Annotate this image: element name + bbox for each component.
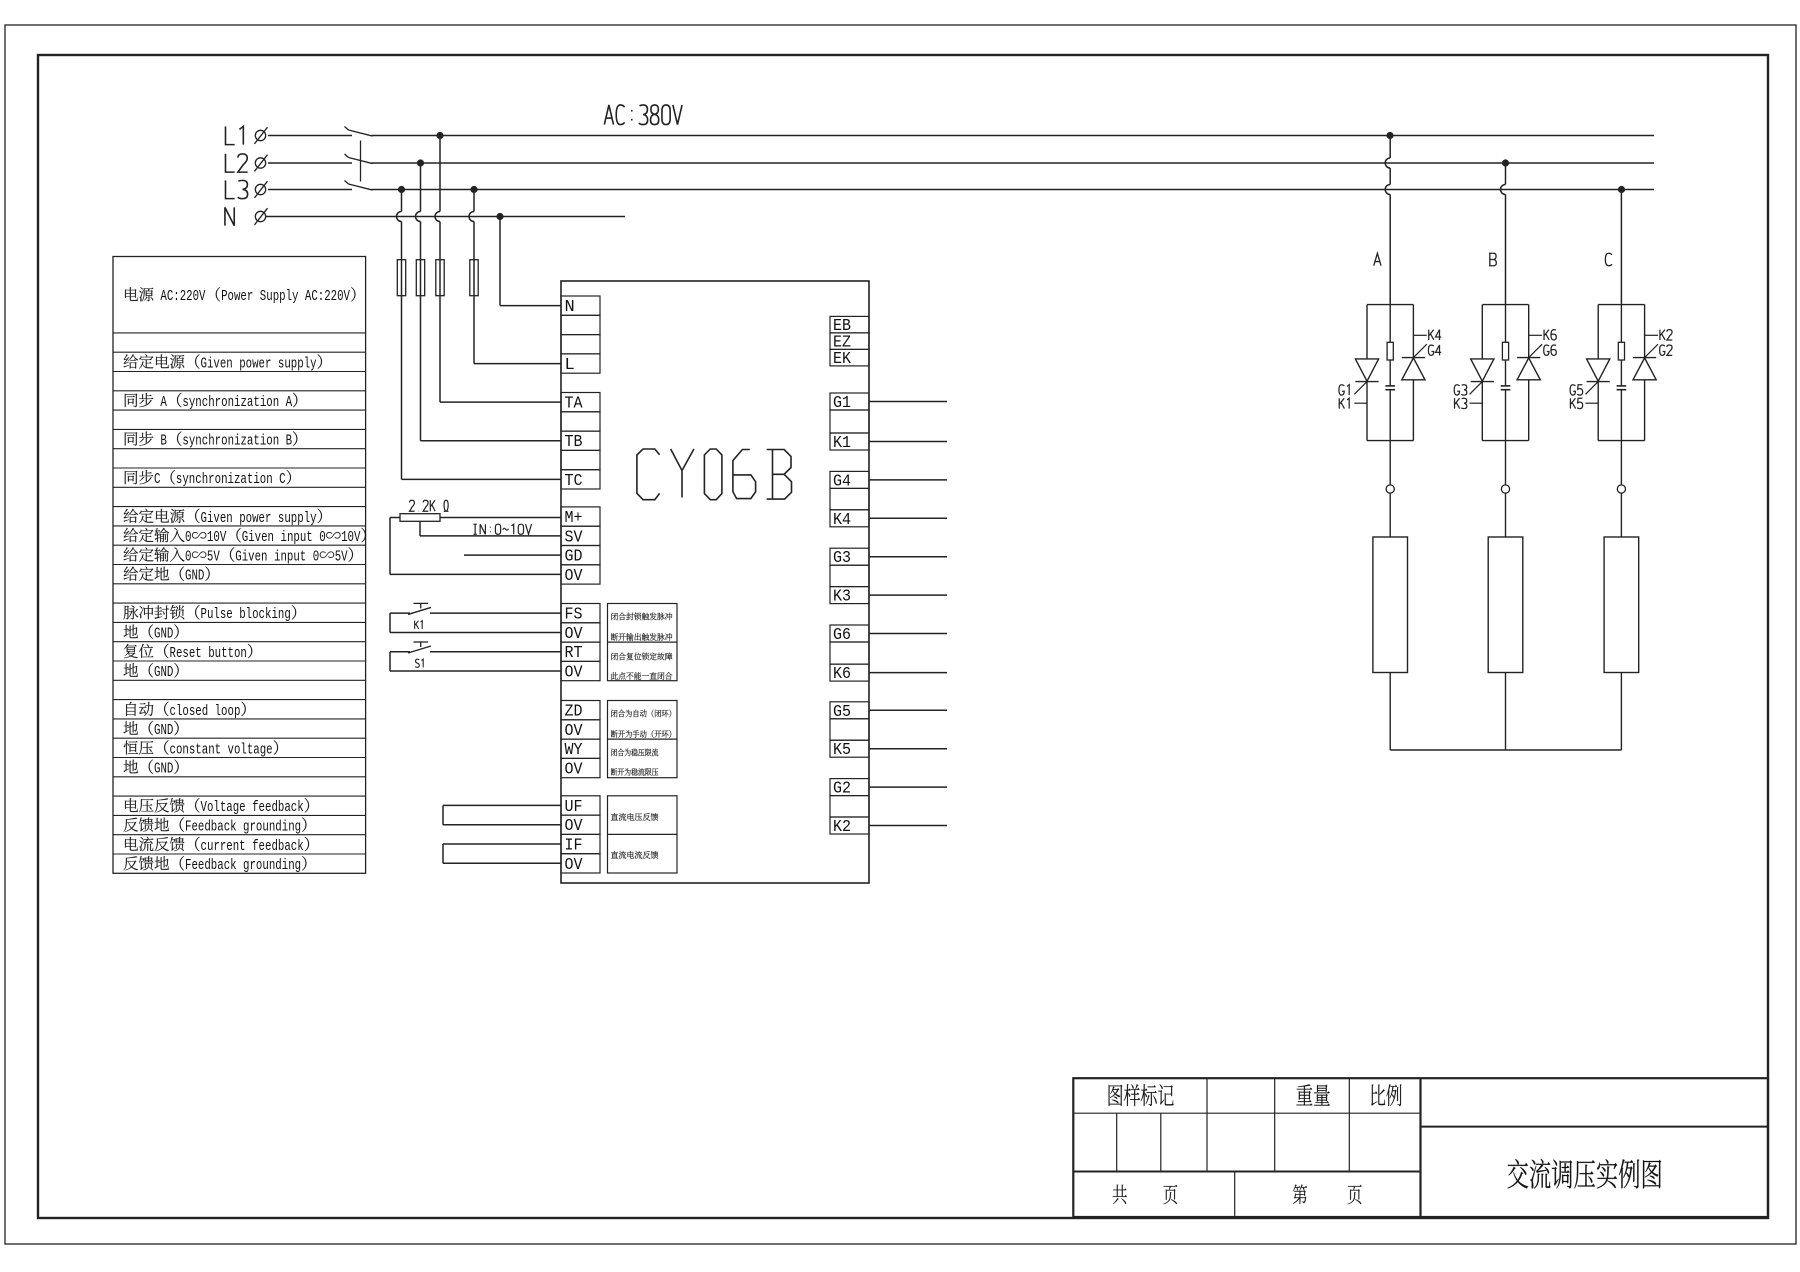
terminal box OV (left)	[561, 720, 600, 741]
wire K3 output	[869, 594, 947, 596]
resistor RP 2.2K (potentiometer)	[400, 514, 440, 522]
svg-text:GND: GND	[154, 664, 173, 681]
svg-text:supply: supply	[278, 355, 317, 372]
switch linkage	[360, 141, 362, 182]
terminal box EB (right)	[830, 316, 869, 336]
drawing title: 交流调压实例图	[1508, 1159, 1662, 1189]
svg-text:GND: GND	[154, 761, 173, 778]
svg-text:5V: 5V	[207, 548, 220, 565]
terminal L1	[255, 127, 268, 144]
svg-text:button: button	[208, 645, 247, 662]
note box: feedback functions	[608, 796, 678, 873]
snubber resistor (C)	[1618, 305, 1624, 360]
svg-text:0: 0	[185, 529, 192, 546]
output terminal circle (C)	[1617, 441, 1625, 494]
label phase A	[1374, 253, 1381, 265]
label L2	[225, 154, 247, 172]
svg-text:Given: Given	[242, 529, 274, 546]
snubber resistor (A)	[1387, 305, 1393, 360]
note box: FS/RT functions	[608, 604, 678, 681]
svg-text:feedback: feedback	[252, 799, 304, 816]
table row: 同步 B（synchroni	[125, 431, 298, 449]
svg-text:L: L	[565, 356, 575, 375]
terminal box K6 (right)	[830, 664, 869, 684]
wire N to N input	[500, 217, 561, 306]
svg-text:Voltage: Voltage	[201, 799, 246, 816]
svg-text:voltage: voltage	[228, 741, 273, 758]
terminal box SV (left)	[561, 526, 600, 547]
wire G5 output	[869, 709, 947, 711]
wire G3 output	[869, 556, 947, 558]
svg-text:K3: K3	[833, 588, 851, 607]
svg-text:K6: K6	[833, 665, 851, 684]
label K6	[1544, 330, 1556, 340]
switch pole L2	[345, 154, 373, 164]
title block text: 重量	[1296, 1084, 1329, 1105]
svg-text:Pulse: Pulse	[201, 606, 233, 623]
svg-text:K5: K5	[833, 741, 851, 760]
wire K5 output	[869, 748, 947, 750]
load resistor (A)	[1373, 493, 1408, 750]
table row: 地（GND）	[124, 663, 179, 681]
output terminal circle (A)	[1386, 441, 1394, 494]
svg-text:OV: OV	[565, 722, 584, 741]
wire G4 output	[869, 479, 947, 481]
label K3	[1455, 398, 1467, 408]
label K4	[1429, 330, 1441, 340]
table row: 给定电源（Given pow	[124, 354, 322, 372]
svg-text:input: input	[281, 529, 313, 546]
controller block CY06B outline	[561, 281, 869, 883]
svg-text:OV: OV	[565, 856, 584, 875]
terminal box OV (left)	[561, 565, 600, 586]
fuse FU4	[470, 260, 478, 296]
terminal box TC (left)	[561, 470, 600, 491]
table row: 反馈地（Feedback g	[124, 817, 307, 835]
table row: 给定电源（Given pow	[124, 509, 322, 527]
svg-text:M+: M+	[565, 509, 583, 528]
label phase B	[1489, 253, 1496, 265]
label CY06B	[637, 449, 792, 500]
switch pole L3	[345, 181, 373, 191]
thyristor module B outline	[1482, 305, 1528, 441]
label 2.2K ohm	[409, 500, 448, 511]
svg-text:FS: FS	[565, 606, 583, 625]
wire G6 output	[869, 633, 947, 635]
label K1	[1339, 398, 1349, 408]
label G1	[1339, 385, 1349, 395]
thyristor G3/K3 (left, B)	[1470, 305, 1494, 441]
terminal box OV (left)	[561, 815, 600, 836]
label S1	[415, 659, 423, 667]
table row: 电压反馈（Voltage f	[125, 798, 309, 816]
snubber capacitor (B)	[1501, 360, 1511, 441]
table row: 电流反馈（current f	[125, 837, 309, 855]
svg-text:WY: WY	[565, 741, 583, 760]
svg-text:loop: loop	[215, 703, 241, 720]
svg-text:IF: IF	[565, 837, 583, 856]
junction L1 / sync A tap	[436, 132, 443, 139]
table row: 自动（closed loop	[126, 702, 246, 720]
label G2	[1660, 345, 1673, 355]
fuse FU3	[436, 260, 444, 296]
wire phase A drop	[1385, 136, 1390, 305]
svg-text:UF: UF	[565, 798, 583, 817]
terminal L3	[255, 181, 268, 198]
wire K1 output	[869, 441, 947, 443]
load resistor (B)	[1488, 493, 1523, 750]
svg-text:EK: EK	[833, 350, 852, 369]
wire phase C drop	[1620, 190, 1622, 305]
current feedback loop IF/0V	[443, 844, 561, 863]
pushbutton S1 (reset)	[390, 642, 561, 671]
thyristor K4/G4 (right, A)	[1402, 305, 1427, 441]
terminal box G1 (right)	[830, 393, 869, 433]
svg-text:TA: TA	[565, 395, 584, 414]
wire phase B drop	[1501, 163, 1506, 305]
thyristor K2/G2 (right, C)	[1633, 305, 1658, 441]
label IN:0-10V	[473, 524, 531, 534]
wire L1 to TA	[435, 136, 561, 403]
svg-text:0: 0	[185, 548, 192, 565]
terminal box spacer (left)	[561, 315, 600, 334]
terminal box G5 (right)	[830, 702, 869, 740]
terminal L2	[255, 155, 268, 172]
wire L2 to TB	[416, 163, 562, 441]
wire G2 output	[869, 786, 947, 788]
svg-text:Reset: Reset	[170, 645, 202, 662]
wire G1 output	[869, 401, 947, 403]
svg-text:K4: K4	[833, 511, 851, 530]
voltage feedback loop UF/0V	[443, 805, 561, 824]
terminal box K3 (right)	[830, 587, 869, 607]
terminal box WY (left)	[561, 739, 600, 760]
power line L3	[268, 189, 1654, 191]
table row: 电源 AC:220V（Pow	[125, 287, 355, 305]
svg-text:feedback: feedback	[252, 838, 304, 855]
svg-text:10V: 10V	[341, 529, 360, 546]
terminal box OV (left)	[561, 661, 600, 682]
svg-text:Supply: Supply	[260, 288, 299, 305]
wire K6 output	[869, 672, 947, 674]
svg-text:grounding: grounding	[243, 819, 301, 836]
svg-text:current: current	[201, 838, 246, 855]
wire K4 output	[869, 517, 947, 519]
terminal N	[255, 208, 268, 225]
terminal box K5 (right)	[830, 740, 869, 760]
description table outline	[113, 257, 366, 874]
table row: 地（GND）	[124, 759, 179, 777]
thyristor G1/K1 (left, A)	[1354, 305, 1378, 441]
svg-text:synchronization: synchronization	[176, 471, 273, 488]
terminal box FS (left)	[561, 604, 600, 625]
terminal box GD (left)	[561, 546, 600, 567]
svg-text:grounding: grounding	[243, 857, 301, 874]
junction L3 / phase C	[1618, 186, 1625, 193]
snubber resistor (B)	[1502, 305, 1508, 360]
label G4	[1428, 345, 1441, 355]
terminal box K4 (right)	[830, 510, 869, 530]
svg-text:power: power	[239, 355, 271, 372]
svg-text:Given: Given	[201, 355, 233, 372]
load resistor (C)	[1604, 493, 1639, 750]
svg-text:blocking: blocking	[239, 606, 291, 623]
junction L1 / phase A	[1386, 132, 1393, 139]
terminal box OV (left)	[561, 623, 600, 644]
terminal box K2 (right)	[830, 817, 869, 837]
svg-text:AC:220V: AC:220V	[305, 288, 350, 305]
svg-text:B: B	[160, 433, 167, 450]
svg-text:N: N	[565, 298, 575, 317]
title block text: 共 页	[1113, 1185, 1178, 1205]
svg-text:OV: OV	[565, 625, 584, 644]
svg-text:K2: K2	[833, 818, 851, 837]
wire resistor left to 0V	[390, 518, 561, 575]
terminal box spacer (left)	[561, 412, 600, 431]
label K2	[1660, 330, 1672, 340]
svg-text:GND: GND	[185, 568, 204, 585]
terminal box G3 (right)	[830, 548, 869, 586]
wire wiper to SV	[420, 521, 561, 536]
terminal box EZ (right)	[830, 333, 869, 353]
svg-text:constant: constant	[170, 741, 222, 758]
svg-text:K1: K1	[833, 434, 851, 453]
terminal box UF (left)	[561, 796, 600, 817]
snubber capacitor (C)	[1617, 360, 1627, 441]
junction L3 / power tap	[470, 186, 477, 193]
snubber capacitor (A)	[1385, 360, 1395, 441]
svg-text:GD: GD	[565, 548, 583, 567]
label AC:380V	[604, 105, 682, 125]
svg-text:GND: GND	[154, 626, 173, 643]
terminal box ZD (left)	[561, 701, 600, 722]
svg-text:RT: RT	[565, 644, 583, 663]
svg-text:0: 0	[319, 529, 326, 546]
svg-text:OV: OV	[565, 664, 584, 683]
terminal box TB (left)	[561, 431, 600, 452]
junction L3 / sync C tap	[398, 186, 405, 193]
table row: 地（GND）	[124, 721, 179, 739]
terminal box L (left)	[561, 354, 600, 375]
svg-text:OV: OV	[565, 817, 584, 836]
switch pole L1	[345, 127, 373, 137]
svg-text:synchronization: synchronization	[182, 394, 279, 411]
label G6	[1544, 345, 1557, 355]
power line L1	[268, 135, 1654, 137]
svg-text:ZD: ZD	[565, 703, 583, 722]
svg-text:C: C	[154, 471, 161, 488]
terminal box G2 (right)	[830, 779, 869, 817]
svg-text:A: A	[160, 394, 167, 411]
table row: 同步C（synchroniz	[125, 470, 291, 488]
svg-text:Feedback: Feedback	[185, 819, 237, 836]
thyristor module A outline	[1367, 305, 1413, 441]
svg-text:0: 0	[313, 548, 320, 565]
svg-text:input: input	[274, 548, 306, 565]
table row: 给定输入0∽10V（Give	[124, 528, 366, 546]
svg-text:5V: 5V	[335, 548, 348, 565]
table row: 反馈地（Feedback g	[124, 856, 307, 874]
terminal box N (left)	[561, 296, 600, 317]
thyristor K6/G6 (right, B)	[1517, 305, 1542, 441]
fuse FU2	[416, 260, 424, 296]
terminal box TA (left)	[561, 393, 600, 414]
junction L2 / sync B tap	[417, 159, 424, 166]
svg-text:Given: Given	[201, 510, 233, 527]
load common bus wire	[1390, 749, 1621, 751]
table row: 给定输入0∽5V（Given	[124, 547, 353, 565]
note box: ZD/WY functions	[608, 701, 678, 778]
svg-text:Given: Given	[235, 548, 267, 565]
table row: 同步 A（synchroni	[125, 393, 298, 411]
terminal box M+ (left)	[561, 507, 600, 528]
wire L3 to TC	[397, 190, 562, 480]
terminal box EK (right)	[830, 349, 869, 369]
svg-text:AC:220V: AC:220V	[160, 288, 205, 305]
junction N tap	[496, 213, 503, 220]
title block text: 图样标记	[1109, 1084, 1174, 1106]
svg-text:Feedback: Feedback	[185, 857, 237, 874]
svg-text:supply: supply	[278, 510, 317, 527]
table row: 给定地（GND）	[124, 566, 210, 584]
power line L2	[268, 162, 1654, 164]
svg-text:synchronization: synchronization	[182, 433, 279, 450]
svg-text:C: C	[279, 471, 286, 488]
label G3	[1454, 385, 1467, 395]
terminal box spacer (left)	[561, 450, 600, 469]
junction L2 / phase B	[1502, 159, 1509, 166]
svg-text:A: A	[286, 394, 293, 411]
terminal box IF (left)	[561, 834, 600, 855]
thyristor G5/K5 (left, C)	[1586, 305, 1610, 441]
table row: 地（GND）	[124, 624, 179, 642]
wire L3 to L input	[469, 190, 561, 364]
label K1	[415, 621, 423, 629]
svg-text:B: B	[286, 433, 293, 450]
svg-text:TB: TB	[565, 433, 583, 452]
terminal box spacer (left)	[561, 335, 600, 354]
table row: 复位（Reset butto	[124, 644, 252, 662]
output terminal circle (B)	[1501, 441, 1509, 494]
svg-text:closed: closed	[170, 703, 209, 720]
svg-text:OV: OV	[565, 567, 584, 586]
svg-text:TC: TC	[565, 472, 583, 491]
table row: 脉冲封锁（Pulse blo	[124, 605, 297, 623]
title block text: 第 页	[1293, 1184, 1362, 1204]
label K5	[1570, 398, 1582, 408]
wire K2 output	[869, 825, 947, 827]
terminal box OV (left)	[561, 758, 600, 779]
fuse FU1	[397, 260, 405, 296]
label L3	[225, 180, 247, 198]
svg-text:GND: GND	[154, 722, 173, 739]
terminal box K1 (right)	[830, 433, 869, 453]
svg-text:OV: OV	[565, 761, 584, 780]
terminal box G4 (right)	[830, 471, 869, 509]
svg-text:10V: 10V	[207, 529, 226, 546]
label phase C	[1605, 253, 1612, 265]
title block outline	[1073, 1078, 1768, 1217]
terminal box RT (left)	[561, 642, 600, 663]
table row: 恒压（constant vo	[124, 740, 278, 758]
terminal box OV (left)	[561, 854, 600, 875]
title block text: 比例	[1371, 1084, 1401, 1106]
svg-text:SV: SV	[565, 528, 584, 547]
label G5	[1570, 385, 1583, 395]
wire GD stub	[464, 554, 561, 556]
thyristor module C outline	[1598, 305, 1644, 441]
pushbutton K1 (pulse blocking)	[390, 603, 561, 632]
terminal box G6 (right)	[830, 625, 869, 664]
svg-text:power: power	[239, 510, 271, 527]
wire M+ from resistor	[440, 517, 561, 519]
svg-text:Power: Power	[221, 288, 253, 305]
label N	[225, 207, 234, 225]
label L1	[225, 126, 243, 144]
neutral line N	[266, 216, 625, 218]
